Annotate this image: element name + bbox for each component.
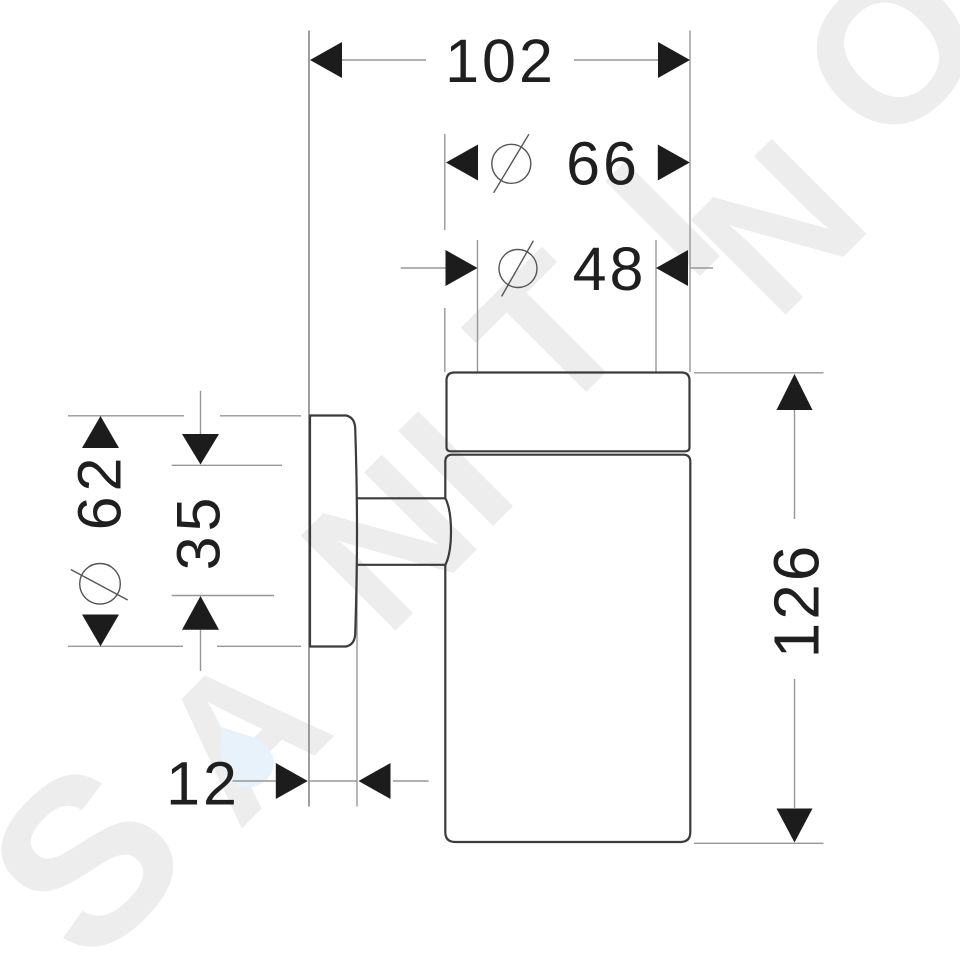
svg-text:66: 66 <box>566 130 640 198</box>
svg-text:102: 102 <box>445 27 556 95</box>
svg-text:35: 35 <box>165 493 233 571</box>
svg-text:62: 62 <box>66 453 134 531</box>
svg-text:126: 126 <box>761 543 833 659</box>
svg-text:12: 12 <box>166 750 240 818</box>
svg-text:48: 48 <box>573 235 647 303</box>
